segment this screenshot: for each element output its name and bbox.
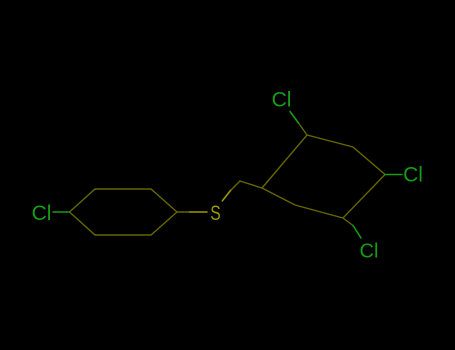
svg-text:Cl: Cl — [272, 89, 292, 112]
svg-text:Cl: Cl — [360, 240, 379, 262]
svg-text:Cl: Cl — [403, 164, 423, 187]
svg-text:Cl: Cl — [32, 202, 52, 225]
svg-text:S: S — [210, 202, 221, 225]
